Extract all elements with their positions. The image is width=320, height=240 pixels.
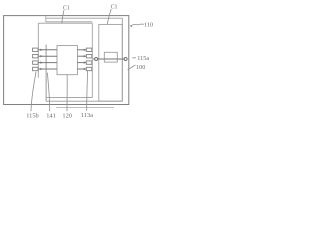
terminal circle left xyxy=(95,58,98,61)
leader 115b xyxy=(31,72,36,112)
svg-text:100: 100 xyxy=(136,64,145,71)
leader C1 left xyxy=(62,10,64,23)
inner frame top xyxy=(46,16,93,22)
leader 141 xyxy=(47,73,49,112)
terminal circle right xyxy=(124,58,127,61)
svg-text:113a: 113a xyxy=(81,112,93,119)
inner frame bottom xyxy=(46,100,122,102)
row 2 tab left xyxy=(33,55,39,58)
svg-text:115a: 115a xyxy=(137,55,149,62)
left cell block box left xyxy=(37,23,39,77)
row 2 wire xyxy=(38,55,57,57)
inner frame right xyxy=(121,18,123,101)
weld arrow right row 1 xyxy=(84,49,87,51)
weld arrow left row 4 xyxy=(40,68,43,70)
svg-text:110: 110 xyxy=(144,22,153,29)
svg-text:C1: C1 xyxy=(111,4,118,10)
weld arrow left row 2 xyxy=(40,55,43,57)
outer case 110 xyxy=(4,16,129,105)
inner cell box 120 xyxy=(57,46,77,75)
leader 120 xyxy=(66,74,68,111)
row 3 tab right xyxy=(86,61,92,64)
weld arrow right row 3 xyxy=(84,61,87,63)
svg-text:C1: C1 xyxy=(63,5,70,11)
row 2 tab right xyxy=(86,55,92,58)
row 3 wire xyxy=(38,62,57,64)
weld arrow right row 2 xyxy=(84,55,87,57)
leader 100 xyxy=(128,65,136,70)
weld arrow left row 1 xyxy=(40,49,43,51)
sense wire 115a xyxy=(93,58,95,60)
left cell block box top xyxy=(38,22,92,24)
row 1 wire xyxy=(38,49,57,51)
row 4 tab left xyxy=(33,67,39,70)
row 4 tab right xyxy=(86,67,92,70)
row 4 wire xyxy=(38,68,57,70)
leader 113a xyxy=(86,71,89,111)
left cell block box right xyxy=(91,23,93,97)
leader 110 xyxy=(132,24,144,25)
leader C1 right xyxy=(107,9,111,24)
svg-text:115b: 115b xyxy=(26,112,39,119)
tall box right (cell C1) xyxy=(99,24,123,101)
vertical bus 141 xyxy=(45,45,47,102)
left cell block box bottom xyxy=(46,97,92,99)
weld arrow right row 4 xyxy=(84,68,87,70)
row 3 tab left xyxy=(33,61,39,64)
svg-text:141: 141 xyxy=(46,112,56,119)
weld arrow left row 3 xyxy=(40,61,43,63)
row 1 tab right xyxy=(86,48,92,51)
component box on sense wire xyxy=(104,52,117,62)
row 1 tab left xyxy=(33,48,39,51)
bottom shelf line xyxy=(56,107,114,109)
svg-text:120: 120 xyxy=(62,112,72,119)
leader 115a dash xyxy=(132,57,136,59)
